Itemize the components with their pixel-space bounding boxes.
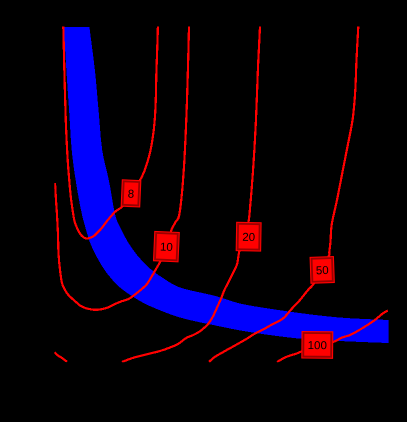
label box 20: [236, 222, 262, 252]
svg-text:100: 100: [308, 340, 327, 352]
contour 10: [55, 27, 189, 310]
contour 100: [277, 311, 388, 363]
svg-text:8: 8: [127, 188, 134, 200]
contour 50: [209, 27, 358, 363]
label box 10: [153, 231, 180, 262]
label box 8: [121, 179, 142, 207]
contour 20 left stub: [55, 352, 68, 362]
label box 100: [301, 331, 333, 359]
contour 8: [63, 27, 158, 239]
label box 50: [310, 256, 335, 284]
blue band (thick hyperbola curve): [64, 27, 389, 343]
svg-text:10: 10: [160, 242, 173, 255]
svg-text:20: 20: [242, 232, 255, 244]
contour 20: [122, 27, 260, 363]
svg-text:50: 50: [316, 265, 329, 277]
